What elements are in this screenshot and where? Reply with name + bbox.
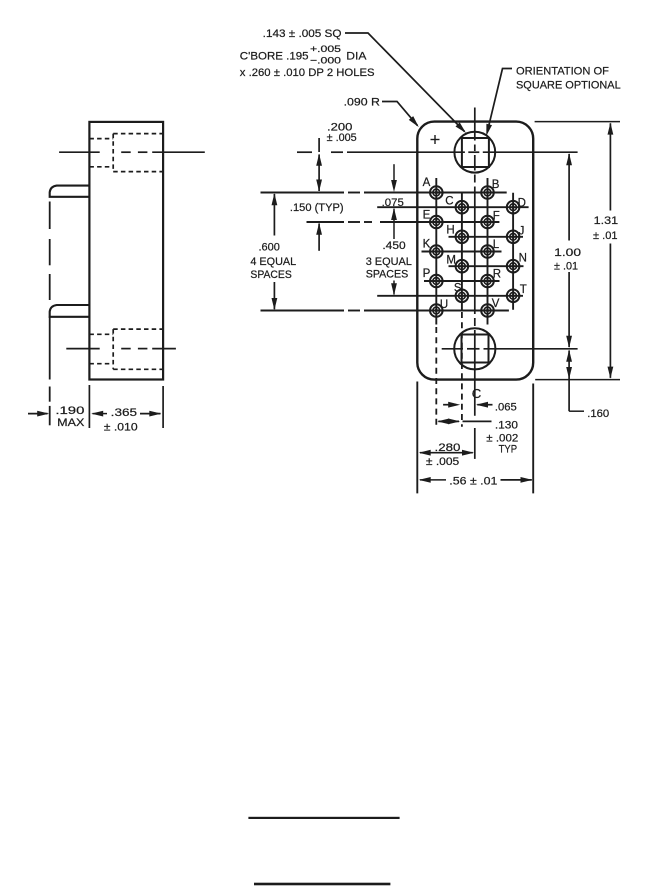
svg-text:.065: .065 bbox=[495, 402, 517, 414]
svg-text:DIA: DIA bbox=[346, 51, 367, 63]
svg-text:SPACES: SPACES bbox=[366, 268, 409, 280]
svg-text:D: D bbox=[518, 198, 526, 210]
svg-text:± .01: ± .01 bbox=[593, 230, 618, 242]
svg-text:H: H bbox=[446, 224, 454, 236]
svg-text:± .005: ± .005 bbox=[426, 456, 459, 468]
svg-text:1.31: 1.31 bbox=[594, 215, 619, 227]
svg-text:x .260 ± .010 DP 2 HOLES: x .260 ± .010 DP 2 HOLES bbox=[240, 67, 375, 79]
svg-text:TYP: TYP bbox=[499, 444, 517, 456]
svg-text:M: M bbox=[446, 255, 456, 267]
svg-text:J: J bbox=[519, 226, 525, 238]
svg-text:.150 (TYP): .150 (TYP) bbox=[290, 202, 344, 214]
svg-text:.365: .365 bbox=[111, 407, 137, 419]
svg-text:.075: .075 bbox=[382, 197, 404, 209]
svg-text:C: C bbox=[445, 195, 453, 207]
svg-text:SPACES: SPACES bbox=[250, 269, 292, 281]
svg-text:4 EQUAL: 4 EQUAL bbox=[250, 256, 296, 268]
svg-text:R: R bbox=[493, 269, 501, 281]
svg-text:+.005: +.005 bbox=[310, 44, 341, 55]
svg-text:L: L bbox=[493, 239, 500, 251]
svg-text:V: V bbox=[492, 298, 500, 310]
svg-text:K: K bbox=[423, 239, 431, 251]
svg-text:.190: .190 bbox=[55, 405, 84, 417]
svg-text:ORIENTATION OF: ORIENTATION OF bbox=[516, 65, 609, 77]
svg-text:.090 R: .090 R bbox=[344, 97, 380, 109]
svg-text:± .010: ± .010 bbox=[104, 422, 138, 434]
svg-text:MAX: MAX bbox=[57, 417, 85, 429]
svg-text:P: P bbox=[423, 268, 431, 280]
svg-text:.130: .130 bbox=[495, 419, 518, 431]
svg-text:C: C bbox=[472, 386, 482, 401]
svg-text:.600: .600 bbox=[259, 241, 280, 253]
svg-text:A: A bbox=[423, 177, 431, 189]
svg-text:F: F bbox=[493, 210, 500, 222]
svg-text:.450: .450 bbox=[382, 240, 405, 252]
svg-text:N: N bbox=[519, 253, 527, 265]
svg-text:S: S bbox=[454, 283, 462, 295]
svg-text:B: B bbox=[492, 179, 500, 191]
svg-text:.143 ± .005 SQ: .143 ± .005 SQ bbox=[263, 28, 342, 40]
svg-text:± .005: ± .005 bbox=[327, 132, 357, 144]
svg-text:T: T bbox=[520, 284, 527, 296]
svg-text:1.00: 1.00 bbox=[554, 247, 581, 259]
svg-text:SQUARE OPTIONAL: SQUARE OPTIONAL bbox=[516, 80, 621, 92]
svg-text:± .01: ± .01 bbox=[554, 260, 578, 272]
svg-text:U: U bbox=[440, 299, 448, 311]
svg-text:.160: .160 bbox=[587, 408, 609, 420]
svg-text:.56 ± .01: .56 ± .01 bbox=[449, 476, 497, 488]
svg-text:C'BORE .195: C'BORE .195 bbox=[240, 51, 309, 63]
svg-text:E: E bbox=[423, 209, 431, 221]
svg-text:.280: .280 bbox=[435, 442, 461, 454]
svg-text:−.000: −.000 bbox=[310, 56, 341, 67]
svg-text:3 EQUAL: 3 EQUAL bbox=[366, 256, 412, 268]
